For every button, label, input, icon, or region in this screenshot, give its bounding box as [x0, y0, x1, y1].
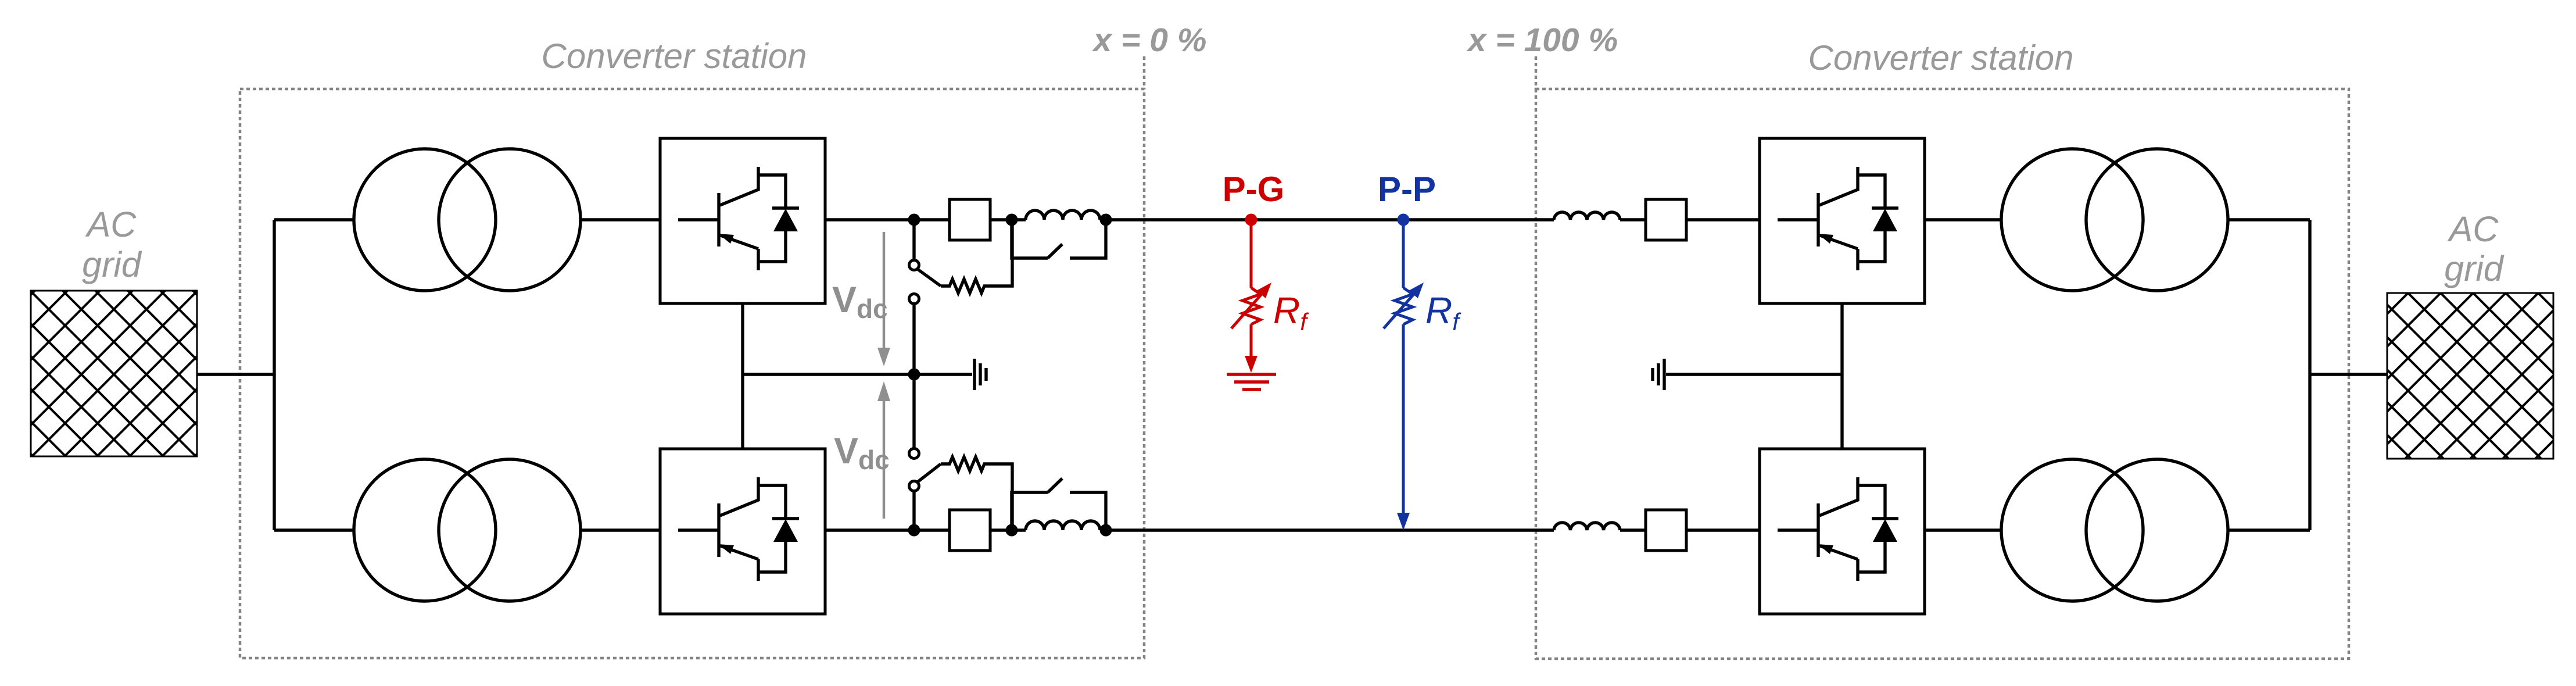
right station: smoothing reactor (upper right): [1554, 212, 1620, 220]
svg-text:x = 0 %: x = 0 %: [1092, 22, 1207, 59]
label: P-G: [1223, 170, 1285, 209]
label: x = 0 %: [1092, 22, 1207, 59]
DC breaker square (lower right): [1646, 510, 1686, 551]
wire: T3 to right riser: [2228, 218, 2310, 221]
node P-P fault (blue): [1384, 214, 1424, 531]
earthing switch blade (upper): [918, 269, 941, 286]
svg-text:P-G: P-G: [1223, 170, 1285, 209]
label: Converter station (left): [542, 37, 807, 76]
Vdc arrow (lower): [877, 381, 890, 519]
transformer T3 (upper right): [2001, 149, 2228, 291]
label: x = 100 %: [1466, 22, 1618, 59]
wire: left AC grid to riser: [197, 373, 274, 376]
bypass switch of reactor (lower pole): [1012, 478, 1106, 530]
fault resistance label Rf (P-P): [1425, 290, 1461, 335]
wire: U3 to transformer T3: [1925, 218, 2001, 221]
earthing switch upper (open, with circles) wire from node: [912, 220, 915, 259]
converter valve U4 (lower right): [1760, 449, 1925, 614]
node P-G fault (red): [1227, 214, 1276, 390]
earthing switch contacts (open circles, lower): [909, 449, 919, 491]
wire: U4 to transformer T4: [1925, 528, 2001, 531]
wire: U1 midpoint drop: [741, 303, 744, 374]
right station: smoothing reactor (lower right): [1554, 523, 1620, 530]
label: AC grid (right): [2444, 209, 2505, 288]
junction dots (upper pole): [908, 214, 1112, 226]
svg-text:Converter station: Converter station: [542, 37, 807, 76]
DC breaker square (upper left): [950, 199, 990, 240]
earthing switch blade (lower): [918, 464, 941, 482]
AC grid source (left): [31, 291, 197, 456]
wire: right AC riser: [2308, 220, 2311, 530]
svg-text:x = 100 %: x = 100 %: [1466, 22, 1618, 59]
wire: T2 to converter U2: [581, 528, 660, 531]
label: AC grid (left): [82, 205, 142, 284]
earthing switch lower contact wire to midpoint: [912, 305, 915, 374]
wire: top DC pole (left station to right station): [825, 218, 1760, 221]
wire: riser to transformer T2: [274, 528, 354, 531]
discharge resistor (lower): [941, 457, 1012, 530]
fault resistance label Rf (P-G): [1273, 290, 1309, 335]
svg-text:Rf: Rf: [1273, 290, 1309, 335]
svg-text:Vdc: Vdc: [832, 280, 888, 324]
junction dots (lower pole): [908, 524, 1112, 537]
earthing switch contacts (open circles, upper): [909, 260, 919, 304]
smoothing reactor L1 (upper left): [1026, 210, 1100, 220]
svg-text:Vdc: Vdc: [834, 431, 890, 475]
wire: T1 to converter U1: [581, 218, 660, 221]
discharge resistor (upper): [941, 220, 1012, 293]
dashed extension to x=100% label: [1535, 56, 1538, 89]
wire: U4 midpoint rise: [1840, 374, 1843, 449]
dashed extension to x=0% label: [1143, 56, 1146, 89]
svg-text:grid: grid: [2444, 249, 2505, 288]
converter valve U1 (upper left): [660, 138, 825, 303]
svg-text:AC: AC: [2447, 209, 2499, 249]
smoothing reactor L2 (lower left): [1026, 521, 1100, 530]
wire: U2 midpoint rise: [741, 374, 744, 449]
transformer T1 (upper left): [354, 149, 581, 291]
converter valve U2 (lower left): [660, 449, 825, 614]
ground (right station): [1653, 359, 1664, 390]
transformer T4 (lower right): [2001, 459, 2228, 601]
AC grid source (right): [2387, 293, 2553, 459]
junction dot (midpoint node): [908, 369, 920, 381]
wire: riser to right AC grid: [2310, 373, 2387, 376]
svg-text:P-P: P-P: [1378, 170, 1436, 209]
label: P-P: [1378, 170, 1436, 209]
converter station dashed box (right): [1536, 89, 2349, 659]
wire: U3 midpoint drop: [1840, 303, 1843, 374]
svg-text:Converter station: Converter station: [1808, 38, 2074, 77]
svg-text:grid: grid: [82, 245, 142, 284]
label: Vdc (upper): [832, 280, 888, 324]
svg-text:AC: AC: [85, 205, 137, 244]
wire: right midpoint bus: [1666, 373, 1842, 376]
DC breaker square (lower left): [950, 510, 990, 551]
bypass switch of reactor (upper pole): [1012, 220, 1106, 258]
wire: T4 to right riser: [2228, 528, 2310, 531]
DC breaker square (upper right): [1646, 199, 1686, 240]
transformer T2 (lower left): [354, 459, 581, 601]
converter valve U3 (upper right): [1760, 138, 1925, 303]
Vdc arrow (upper): [877, 232, 890, 366]
earthing switch lower contact wire to midpoint (bottom): [912, 374, 915, 448]
label: Converter station (right): [1808, 38, 2074, 77]
wire: left AC riser: [273, 220, 275, 530]
earthing switch lower branch (bottom pole) wire: [912, 492, 915, 530]
ground (left station): [974, 359, 986, 390]
svg-text:Rf: Rf: [1425, 290, 1461, 335]
converter station dashed box (left): [240, 89, 1144, 658]
wire: left midpoint bus: [743, 373, 972, 376]
wire: riser to transformer T1: [274, 218, 354, 221]
label: Vdc (lower): [834, 431, 890, 475]
wire: bottom DC pole (left station to right station): [825, 528, 1760, 531]
